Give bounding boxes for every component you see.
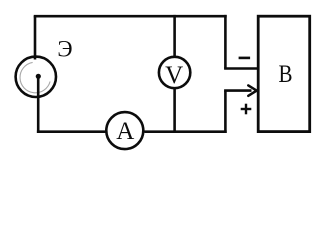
galvanic cell Э: centre dot — [36, 74, 41, 79]
wire: top rail — [34, 15, 227, 18]
wire stub: source bottom lead from dot — [37, 77, 40, 99]
voltmeter V: circle — [159, 57, 190, 88]
wire: bottom rail right segment — [145, 130, 227, 133]
svg-text:V: V — [165, 62, 183, 89]
galvanic cell Э: outer circle — [16, 57, 56, 97]
wire: source top lead (vertical from top rail) — [34, 16, 37, 59]
galvanic cell Э: inner sketched circle — [20, 62, 50, 92]
label: plus sign — [241, 104, 252, 115]
svg-text:А: А — [116, 118, 134, 145]
ammeter A: circle — [106, 112, 143, 149]
wire: source bottom lead (from centre dot) — [37, 77, 40, 134]
wire: bottom rail left segment — [37, 130, 106, 133]
wire: minus lead into B — [224, 67, 257, 70]
svg-text:Э: Э — [57, 37, 72, 62]
wire stub: source top lead inside circle — [34, 56, 37, 60]
wire: right upper vertical drop — [224, 15, 227, 69]
voltmeter V: bottom lead — [173, 88, 176, 132]
voltmeter V: top lead — [173, 15, 176, 57]
wire: right lower vertical rise — [224, 91, 227, 133]
load box B: rectangle — [258, 16, 310, 131]
svg-text:В: В — [278, 59, 292, 87]
label: minus sign — [239, 57, 251, 60]
wire: plus lead into B (with arrow) — [224, 89, 251, 92]
arrowhead on plus lead — [248, 85, 256, 95]
